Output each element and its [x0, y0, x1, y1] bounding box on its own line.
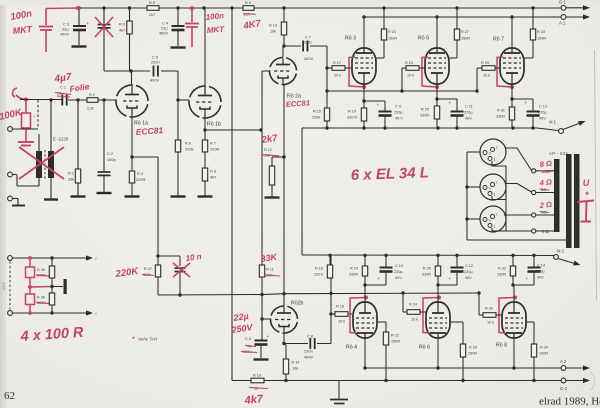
wire B+ to R10 column — [230, 6, 233, 9]
wire Rö2a cathode — [283, 84, 285, 306]
svg-text:40V: 40V — [465, 117, 472, 121]
svg-text:C 13: C 13 — [539, 105, 547, 109]
transformer winding secondary — [554, 159, 560, 232]
svg-text:4k7: 4k7 — [210, 175, 216, 180]
svg-text:R 6: R 6 — [185, 141, 191, 146]
svg-text:U: U — [582, 178, 590, 188]
svg-text:2,2k: 2,2k — [87, 107, 94, 111]
wire XLR2 pin2 to 4 ohm tap — [505, 184, 532, 193]
ground R8 — [198, 195, 213, 197]
svg-text:R 23: R 23 — [405, 61, 413, 65]
wire B+ rail middle — [159, 7, 243, 9]
red jumper g3-cathode Rö5 — [422, 57, 437, 87]
wire heater bottom — [13, 312, 89, 314]
resistor R9 (value crossed out, red 4K7) — [243, 6, 254, 11]
resistor R102 black bottom — [51, 287, 53, 294]
triode Rö2b — [266, 302, 301, 337]
wire Rö3 cathode — [363, 84, 365, 108]
svg-text:6 x EL 34 L: 6 x EL 34 L — [351, 164, 430, 184]
resistor R34 — [531, 344, 536, 357]
wire Rö5 screen to R27 — [449, 57, 457, 59]
svg-text:220R: 220R — [136, 177, 145, 182]
svg-text:330R: 330R — [420, 114, 429, 118]
svg-text:330R: 330R — [422, 273, 431, 277]
capacitor C3 — [77, 6, 80, 9]
resistor R17 — [327, 67, 332, 69]
svg-text:f: f — [96, 312, 97, 316]
capacitor C9 — [364, 100, 385, 102]
svg-text:220µ: 220µ — [464, 270, 473, 274]
connector XLR3 — [480, 206, 506, 232]
wire Rö2a grid chain — [262, 70, 270, 72]
resistor R23 — [401, 68, 403, 91]
svg-text:10k: 10k — [292, 367, 298, 371]
svg-text:AP - 634: AP - 634 — [549, 151, 568, 156]
svg-text:A 2: A 2 — [560, 359, 567, 364]
ground C2 — [97, 192, 112, 194]
resistor R30 — [478, 293, 480, 315]
svg-text:3: 3 — [489, 151, 491, 156]
svg-text:R 11: R 11 — [266, 268, 274, 272]
chassis ground at G2 line — [338, 381, 340, 400]
svg-text:M 1: M 1 — [549, 120, 557, 125]
svg-text:45 V: 45 V — [395, 117, 403, 121]
svg-text:220µ: 220µ — [394, 270, 403, 274]
wire Rö5 cathode — [436, 84, 438, 106]
wire B+ rail left — [78, 7, 147, 9]
capacitor C6 (values crossed out, red 22µ 250V) — [261, 319, 263, 340]
svg-text:3: 3 — [489, 218, 491, 223]
pentode Rö3 — [352, 48, 376, 84]
svg-text:C 11: C 11 — [465, 105, 473, 109]
resistor R33 — [530, 29, 535, 40]
red X over capacitor — [95, 17, 113, 37]
svg-text:150R: 150R — [539, 352, 548, 356]
svg-text:R 10: R 10 — [253, 374, 261, 378]
capacitor C12 — [456, 255, 458, 267]
svg-text:10 k: 10 k — [487, 321, 494, 325]
ground heater mid — [64, 279, 67, 294]
resistor R16 — [329, 255, 331, 265]
svg-text:R 19: R 19 — [348, 110, 356, 114]
svg-text:C 6: C 6 — [245, 337, 251, 341]
terminal a — [8, 127, 13, 132]
capacitor C14 — [533, 255, 535, 267]
svg-text:C 1: C 1 — [60, 85, 66, 90]
resistor R20 — [364, 255, 366, 266]
resistor R25 — [434, 106, 439, 119]
red jumper g3-cathode Rö7 — [497, 57, 512, 87]
svg-text:ECC81: ECC81 — [286, 98, 311, 109]
wire Rö7 anode — [511, 17, 513, 48]
svg-text:220k: 220k — [312, 116, 320, 120]
transformer winding primary — [566, 154, 572, 248]
svg-text:R 18: R 18 — [336, 305, 344, 309]
svg-text:R 33: R 33 — [537, 30, 545, 34]
svg-text:8 Ω: 8 Ω — [539, 159, 552, 169]
svg-text:R 28: R 28 — [469, 346, 477, 350]
terminal b — [8, 172, 13, 177]
svg-text:R 21: R 21 — [388, 30, 396, 34]
svg-text:40V: 40V — [537, 276, 544, 280]
wire Rö1b cathode to Rö2a grid — [205, 129, 262, 131]
svg-text:2k7: 2k7 — [149, 13, 155, 17]
capacitor crossed out at rail (red X) — [102, 6, 105, 9]
svg-text:220µ: 220µ — [394, 111, 403, 115]
wire Rö8 cathode — [513, 285, 515, 302]
svg-text:R 3: R 3 — [119, 22, 125, 27]
red X over 10n cap — [173, 263, 190, 277]
resistor R31 — [509, 107, 514, 120]
resistor R2 — [87, 98, 98, 103]
wire Rö4 cathode — [364, 285, 366, 302]
svg-text:C 14: C 14 — [537, 264, 545, 268]
wire C5 node — [104, 70, 150, 72]
svg-text:R 5: R 5 — [149, 1, 155, 5]
svg-text:+: + — [525, 100, 528, 105]
svg-text:C 2: C 2 — [107, 151, 113, 156]
capacitor C1 (value crossed out, red 4µ7 Folie) — [61, 95, 63, 106]
svg-text:220n: 220n — [304, 349, 313, 354]
wire ground bus bottom section — [302, 254, 554, 257]
ground R4 — [125, 195, 140, 197]
svg-text:220µ: 220µ — [464, 111, 473, 115]
resistor R10 (value crossed out, red 4k7) — [251, 378, 264, 383]
wire Rö8 screen to R34 — [526, 321, 534, 323]
resistor R21 — [381, 29, 386, 40]
capacitor 10n feedback (red X, red 10n) — [175, 267, 186, 269]
svg-text:R 25: R 25 — [421, 108, 429, 112]
svg-text:f: f — [96, 257, 97, 261]
resistor R22 — [383, 332, 388, 345]
resistor R8 — [202, 168, 207, 181]
svg-text:G 1: G 1 — [559, 0, 566, 5]
resistor R12 (value crossed out, red 2k7) — [272, 156, 284, 158]
svg-text:10 k: 10 k — [334, 74, 341, 78]
svg-text:1k: 1k — [254, 387, 258, 391]
svg-text:10 k: 10 k — [407, 74, 414, 78]
svg-text:3: 3 — [489, 186, 491, 191]
page fold line — [595, 50, 597, 300]
svg-text:R 32: R 32 — [498, 267, 506, 271]
svg-text:400V: 400V — [150, 78, 159, 83]
pentode Rö4 — [353, 302, 377, 338]
svg-text:R 8: R 8 — [210, 169, 216, 174]
terminal A1 — [561, 15, 566, 20]
ground C6 — [254, 358, 269, 360]
wire grid bus top — [326, 46, 328, 91]
svg-text:+: + — [378, 276, 381, 281]
terminal A2 — [561, 366, 566, 371]
wire A2 anode line — [365, 367, 561, 369]
svg-text:+: + — [449, 276, 452, 281]
svg-text:330R: 330R — [496, 115, 505, 119]
svg-text:400V: 400V — [304, 355, 313, 360]
resistor R29 — [476, 68, 478, 91]
svg-text:C 9: C 9 — [395, 105, 401, 109]
wire XLR pin3 bus — [467, 151, 480, 153]
wire Rö1a cathode — [131, 117, 133, 171]
ground E-1220 — [44, 198, 58, 200]
wire A1 anode line — [364, 16, 561, 18]
svg-text:220R: 220R — [210, 147, 219, 152]
svg-text:R 17: R 17 — [333, 61, 341, 65]
pentode Rö5 — [425, 48, 449, 84]
svg-text:R 36: R 36 — [37, 295, 45, 299]
svg-text:10 k: 10 k — [411, 318, 418, 322]
svg-text:330 R: 330 R — [347, 116, 357, 120]
wire Rö2a anode — [282, 46, 284, 57]
svg-text:R 7: R 7 — [210, 141, 216, 146]
terminal M1 — [559, 129, 564, 134]
svg-text:siehe Text: siehe Text — [138, 337, 158, 342]
triode Rö2a — [265, 53, 300, 88]
wire C5 to Rö1b grid — [161, 70, 178, 72]
svg-text:150R: 150R — [461, 37, 470, 41]
wire to feedback cap — [158, 255, 180, 257]
red jumper g3-cathode Rö4 — [350, 298, 366, 334]
svg-text:Rö2b: Rö2b — [291, 301, 304, 307]
resistor R11 (value crossed out, red 33K) — [259, 265, 264, 277]
wire Rö7 cathode — [511, 84, 513, 107]
wire Rö3 anode — [363, 17, 365, 48]
svg-text:Rö 1b: Rö 1b — [207, 122, 221, 128]
wire Rö2b grid — [262, 318, 271, 320]
svg-text:450V: 450V — [60, 32, 69, 37]
resistor R19 — [361, 108, 366, 121]
svg-text:150R: 150R — [537, 37, 546, 41]
svg-text:4k7: 4k7 — [119, 28, 125, 33]
wire heater top — [13, 257, 89, 259]
svg-text:Rö 6: Rö 6 — [419, 345, 430, 351]
wire ground bus to M1 — [537, 128, 559, 131]
svg-text:R 35: R 35 — [37, 268, 45, 272]
svg-text:Rö 8: Rö 8 — [496, 343, 507, 349]
svg-text:R 12: R 12 — [264, 148, 272, 152]
ground C4 — [171, 46, 186, 48]
resistor R3 — [128, 6, 131, 9]
ground R1 — [71, 195, 86, 197]
wire cathode to feedback node — [132, 156, 158, 158]
resistor R5 — [147, 6, 159, 11]
svg-text:2: 2 — [496, 212, 498, 217]
svg-text:R 15: R 15 — [313, 110, 321, 114]
svg-text:220n: 220n — [303, 40, 312, 45]
resistor R14 — [284, 344, 286, 346]
red hand-drawn capacitor 100n at input rail — [45, 9, 47, 26]
svg-text:C 12: C 12 — [465, 264, 473, 268]
wire XLR3 pin2 to 2 ohm tap — [504, 214, 532, 216]
svg-text:R 26: R 26 — [423, 267, 431, 271]
svg-text:40V: 40V — [395, 276, 402, 280]
svg-text:10 k: 10 k — [483, 74, 490, 78]
wire Rö6 screen to R28 — [450, 321, 463, 323]
svg-text:R 13: R 13 — [269, 24, 277, 28]
wire Rö2b anode to grid bus — [283, 294, 285, 307]
svg-text:MKT: MKT — [207, 25, 226, 35]
wire C8 riser to R18/R16 node — [330, 255, 332, 344]
wire B+ rail right — [254, 7, 561, 9]
resistor R26 — [437, 255, 439, 266]
svg-text:0 Ω: 0 Ω — [542, 229, 550, 234]
terminal ground — [8, 196, 13, 201]
svg-text:150R: 150R — [391, 340, 400, 344]
wire heater middle tap — [30, 286, 52, 289]
capacitor C7 — [284, 45, 301, 47]
ground R12 — [265, 196, 280, 198]
wire Rö4 screen to R22 — [377, 321, 386, 323]
svg-text:0,5 V: 0,5 V — [2, 282, 6, 290]
wire R2 to Rö1a grid — [98, 99, 116, 101]
wire Rö1b cathode — [204, 118, 206, 140]
triode Rö1b — [184, 81, 226, 123]
svg-text:Rö 5: Rö 5 — [418, 36, 429, 42]
svg-text:R 24: R 24 — [409, 303, 417, 307]
svg-text:450V: 450V — [159, 31, 168, 36]
svg-text:R 9: R 9 — [245, 1, 251, 5]
resistor R32 — [512, 255, 514, 266]
svg-text:2: 2 — [496, 145, 498, 150]
red X over transformer — [19, 147, 64, 179]
svg-text:M 2: M 2 — [557, 249, 565, 254]
red jumper g3-cathode Rö8 — [499, 298, 515, 334]
resistor R28 — [460, 344, 465, 357]
svg-text:33k: 33k — [68, 177, 74, 182]
shield dashed wire — [37, 100, 39, 128]
svg-text:+: + — [87, 21, 90, 26]
svg-text:1: 1 — [494, 224, 496, 229]
svg-text:ECC81: ECC81 — [135, 125, 163, 137]
svg-text:2: 2 — [496, 180, 498, 185]
svg-text:+: + — [267, 334, 270, 339]
svg-text:330R: 330R — [349, 273, 358, 277]
svg-text:270µ: 270µ — [536, 270, 545, 274]
svg-text:40V: 40V — [465, 276, 472, 280]
resistor R13 — [282, 6, 285, 9]
wire Rö6 anode to A2 — [437, 338, 439, 368]
svg-text:R 22: R 22 — [391, 334, 399, 338]
svg-text:10k: 10k — [270, 30, 276, 34]
capacitor C13 — [512, 98, 533, 100]
pentode Rö7 — [500, 48, 524, 84]
tap 0 ohm — [532, 229, 536, 233]
resistor R24 — [402, 293, 404, 312]
svg-text:220k: 220k — [185, 147, 193, 152]
svg-text:Rö 3: Rö 3 — [345, 36, 356, 42]
svg-text:R 14: R 14 — [292, 361, 300, 365]
terminal H1 — [8, 256, 13, 261]
wire ground bus top section — [302, 127, 537, 129]
svg-text:1: 1 — [494, 192, 496, 197]
svg-text:A 1: A 1 — [559, 21, 566, 26]
triode Rö1a — [111, 80, 153, 122]
svg-text:1: 1 — [494, 157, 496, 162]
capacitor C8 — [284, 343, 308, 345]
wire Rö7 screen to R33 — [524, 57, 533, 59]
resistor R35 (red, value crossed) — [29, 258, 31, 267]
svg-text:R 27: R 27 — [461, 30, 469, 34]
svg-text:100n: 100n — [205, 11, 224, 22]
svg-text:4k7: 4k7 — [243, 393, 264, 407]
capacitor C5 — [153, 66, 155, 77]
svg-text:R 29: R 29 — [481, 61, 489, 65]
pentode Rö6 — [426, 302, 450, 338]
red jumper g3-cathode Rö3 — [349, 57, 364, 87]
svg-text:E -1220: E -1220 — [53, 137, 69, 142]
svg-text:330R: 330R — [497, 273, 506, 277]
svg-text:40V: 40V — [539, 117, 546, 121]
resistor R1 — [77, 100, 79, 169]
tap 2 ohm — [532, 213, 536, 217]
red wire to rail — [46, 7, 78, 10]
wire Rö5 anode — [436, 17, 438, 48]
svg-text:10 k: 10 k — [338, 320, 345, 324]
resistor R101 black top — [51, 258, 53, 266]
svg-text:R 34: R 34 — [540, 346, 548, 350]
svg-text:C 10: C 10 — [395, 264, 403, 268]
svg-text:220 k: 220 k — [314, 273, 323, 277]
svg-text:R 16: R 16 — [315, 267, 323, 271]
svg-text:150R: 150R — [468, 352, 477, 356]
resistor R6 — [175, 140, 180, 152]
red bracket across secondary — [577, 201, 594, 222]
svg-text:R 4: R 4 — [137, 171, 144, 176]
wire XLR pin1 chain to 0 ohm tap — [492, 161, 532, 231]
wire pin3 bus to transformer — [467, 239, 566, 241]
svg-text:+: + — [526, 276, 529, 281]
wire XLR1 pin2 to 8 ohm tap — [505, 148, 532, 171]
svg-text:Rö 4: Rö 4 — [346, 345, 357, 351]
terminal H2 — [8, 311, 13, 316]
wire Rö4 anode to A2 — [364, 338, 366, 368]
wire input line — [20, 99, 62, 101]
svg-text:elrad 1989, Hef: elrad 1989, Hef — [539, 396, 600, 408]
tap 8 ohm — [532, 169, 536, 173]
resistor R37 (red 220K) — [155, 265, 160, 277]
svg-text:R 31: R 31 — [497, 109, 505, 113]
svg-text:100p: 100p — [107, 157, 116, 162]
svg-text:150R: 150R — [388, 37, 397, 41]
red hand-drawn potentiometer 100K — [25, 100, 27, 114]
wire G2 line — [264, 380, 561, 382]
wire Rö6 cathode — [437, 285, 439, 302]
label 0,5V dashed — [9, 262, 11, 310]
resistor R15 — [326, 91, 328, 108]
red jumper g3-cathode Rö6 — [423, 298, 439, 334]
svg-text:62: 62 — [4, 390, 15, 402]
svg-text:220µ: 220µ — [538, 111, 547, 115]
capacitor C10 — [385, 255, 387, 267]
svg-text:R 2: R 2 — [89, 93, 95, 97]
wire Rö8 anode to A2 — [513, 338, 515, 368]
svg-text:400V: 400V — [304, 56, 313, 61]
capacitor C11 — [437, 98, 457, 100]
wire grid bus bottom — [285, 292, 479, 295]
resistor R36 (red, value crossed) — [29, 287, 31, 294]
red input connector symbol — [13, 88, 17, 97]
svg-text:C 8: C 8 — [307, 334, 313, 339]
svg-text:+: + — [377, 102, 380, 107]
svg-text:R 30: R 30 — [485, 307, 493, 311]
terminal G2 — [561, 378, 566, 383]
svg-text:R 1: R 1 — [68, 171, 74, 176]
pentode Rö8 — [502, 302, 526, 338]
wire C1 to R2 — [68, 99, 87, 101]
svg-text:220n: 220n — [151, 60, 160, 65]
svg-text:R 37: R 37 — [144, 267, 152, 271]
wire feedback line — [158, 294, 262, 297]
svg-text:+: + — [449, 100, 452, 105]
